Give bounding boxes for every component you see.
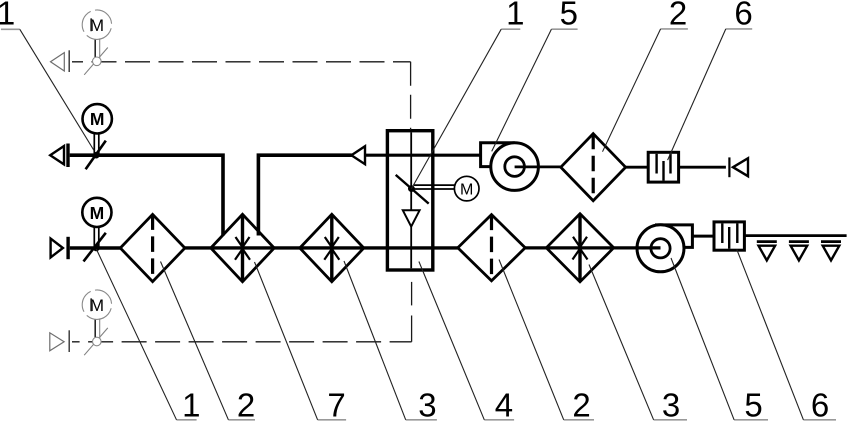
exhaust outlet grille (top-left) (50, 144, 70, 168)
label 5 (bottom, exhaust fan) (671, 258, 768, 424)
supply inlet grille (bottom-left) (51, 237, 70, 259)
filter F-top (diamond with dashed bar) (561, 134, 626, 201)
svg-text:3: 3 (418, 387, 436, 424)
label 3 (bottom, heat exchanger HE3) (344, 261, 437, 424)
flow arrow (left-pointing) on upper line (351, 146, 365, 164)
svg-text:M: M (90, 203, 105, 223)
optional recirculation damper (dashed, bottom-left) (50, 284, 118, 355)
supply air outlet symbol (bar + triangle) (729, 157, 748, 177)
wire: silencer to outlet (top right) (679, 166, 726, 169)
svg-text:5: 5 (744, 387, 762, 424)
svg-text:7: 7 (327, 387, 345, 424)
label 1 (bottom, supply damper) (96, 249, 200, 424)
wire: supply line inlet to filter F1 (70, 246, 121, 250)
svg-text:4: 4 (495, 387, 513, 424)
filter F1 (supply, diamond with dashed bar) (120, 214, 185, 281)
svg-text:1: 1 (182, 387, 200, 424)
wire: main supply line through heat exchangers to filter F2 (185, 246, 458, 249)
label 2 (bottom, filter F1) (161, 262, 256, 424)
wire: exhaust main line with left riser (70, 155, 223, 235)
optional exhaust damper (dashed, top-left) (51, 4, 118, 75)
wire: arrow to fan inlet through unit 4 (365, 154, 481, 157)
svg-text:M: M (90, 109, 105, 129)
exhaust fan 5 (bottom) (637, 225, 692, 272)
recirculation damper D3 with motor M (in unit 4) (396, 175, 479, 204)
damper D2 with motor M (supply line) (82, 198, 111, 262)
label 2 (top, filter) (603, 0, 688, 152)
mixing box unit 4 (tall rectangle) (387, 131, 432, 270)
svg-text:6: 6 (811, 387, 829, 424)
wire: distribution line with grilles (744, 234, 846, 237)
silencer 6 (bottom) (714, 222, 744, 250)
wire: filter to silencer (top) (626, 166, 649, 169)
silencer 6 (top) (648, 152, 678, 182)
filter F2 (bottom, diamond with dashed bar) (458, 215, 525, 281)
svg-text:1: 1 (506, 0, 524, 32)
svg-text:2: 2 (669, 0, 687, 32)
wire: right riser and upper line to arrow (258, 155, 351, 235)
air grille G1 (757, 242, 777, 261)
supply fan 5 (top) (481, 143, 561, 191)
wire: heater through fan center (bottom) (525, 246, 660, 249)
label 6 (bottom, silencer) (737, 250, 836, 424)
label 1 (top-left, damper) (0, 0, 94, 150)
label 4 (bottom, mixing box) (419, 262, 514, 424)
label 2 (bottom, filter F2) (499, 260, 594, 424)
heat exchanger HE7 (diamond with arrows) (211, 214, 274, 281)
label 6 (top, silencer) (668, 0, 753, 160)
svg-text:5: 5 (560, 0, 578, 32)
air grille G3 (821, 242, 841, 261)
label 5 (top, supply fan) (492, 0, 578, 151)
label 7 (bottom, heat exchanger) (255, 262, 347, 424)
air grille G2 (789, 242, 809, 261)
dashed boundary (recirculation section) (72, 62, 412, 342)
svg-text:2: 2 (237, 387, 255, 424)
label 1 (top, recirculation damper) (412, 0, 525, 189)
svg-text:M: M (460, 181, 473, 198)
svg-text:2: 2 (572, 387, 590, 424)
svg-text:1: 1 (0, 0, 15, 32)
label 3 (bottom, air heater) (589, 265, 687, 424)
svg-text:6: 6 (734, 0, 752, 32)
svg-text:3: 3 (662, 387, 680, 424)
wire: fan outlet to silencer (bottom) (692, 235, 714, 238)
air heater HE-bottom (diamond with arrows) (546, 214, 613, 282)
damper D1 with motor M (exhaust line) (83, 104, 112, 169)
heat exchanger HE3 (diamond with arrows) (300, 214, 364, 281)
